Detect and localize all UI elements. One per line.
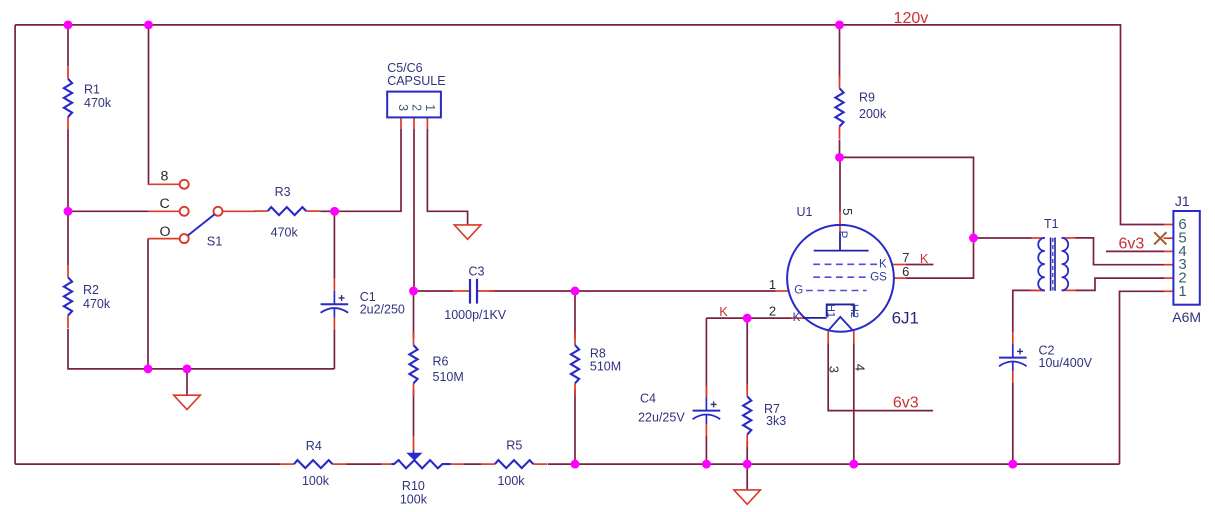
wire T1 secondary top to J1 pin 3 xyxy=(1076,238,1165,265)
switch S1 pole xyxy=(214,207,223,216)
wire tube pin 3 net 6v3 xyxy=(828,344,933,411)
connector J1 body xyxy=(1173,211,1199,305)
junction node E xyxy=(835,153,844,162)
svg-text:A6M: A6M xyxy=(1172,309,1201,325)
wire R7 ground stub xyxy=(746,464,748,490)
wire tube pin 6 to node F xyxy=(906,238,974,278)
junction node B xyxy=(409,287,418,296)
svg-text:1: 1 xyxy=(1178,283,1186,300)
op-amp U1 tube envelope xyxy=(787,225,894,332)
svg-text:3: 3 xyxy=(396,104,410,111)
pin 5 stub into tube plate xyxy=(839,212,841,234)
junction top rail switch xyxy=(144,20,153,29)
transformer T1 core line right xyxy=(1054,238,1056,291)
svg-text:G: G xyxy=(794,284,803,296)
svg-text:5: 5 xyxy=(840,208,855,215)
svg-text:K: K xyxy=(920,251,929,266)
wire top 120v rail xyxy=(15,24,1120,26)
tube grid dash line K xyxy=(813,263,877,265)
wire C1 bottom to ground bus xyxy=(333,330,335,369)
svg-text:6: 6 xyxy=(902,264,909,279)
svg-text:R10: R10 xyxy=(402,479,425,493)
svg-text:22u/25V: 22u/25V xyxy=(638,410,685,424)
svg-text:S1: S1 xyxy=(207,234,223,249)
svg-text:1000p/1KV: 1000p/1KV xyxy=(444,308,507,322)
svg-text:1: 1 xyxy=(423,104,437,111)
switch S1 blade xyxy=(188,214,215,235)
svg-text:510M: 510M xyxy=(590,359,621,373)
svg-text:1: 1 xyxy=(769,277,776,292)
wire node F to T1 primary top xyxy=(974,237,1032,239)
wire node B down to R6 xyxy=(413,291,415,339)
junction rail C2 xyxy=(1008,460,1017,469)
wire T1 primary bottom to C2 xyxy=(1013,290,1045,332)
resistor R2 xyxy=(67,265,69,278)
svg-text:U1: U1 xyxy=(797,205,813,219)
tube plate lead xyxy=(839,233,841,251)
svg-text:CAPSULE: CAPSULE xyxy=(387,74,445,88)
svg-text:K: K xyxy=(793,312,801,324)
svg-text:C3: C3 xyxy=(469,265,485,279)
wire 120v drop to J1 pin 6 xyxy=(1121,24,1165,225)
svg-text:100k: 100k xyxy=(400,492,428,506)
wire ground bus stub xyxy=(186,369,188,395)
wire R2 bottom to ground bus xyxy=(68,329,334,369)
wire R3 to node A xyxy=(320,210,334,212)
potentiometer R10 xyxy=(381,463,392,465)
resistor R6 xyxy=(413,333,415,346)
svg-text:C5/C6: C5/C6 xyxy=(387,61,422,75)
wire R9 bottom to node E xyxy=(839,140,841,158)
pin 6 stub from tube xyxy=(894,277,906,279)
pin stub J1 pin 3 xyxy=(1164,264,1173,266)
junction ground bus gnd xyxy=(183,364,192,373)
wire node C to switch contact C xyxy=(68,210,149,212)
pin stub switch contact C xyxy=(149,210,180,212)
junction top rail R1 xyxy=(64,20,73,29)
wire node D down to R8 xyxy=(574,291,576,339)
capacitor C1 xyxy=(333,279,335,291)
resistor R3 xyxy=(254,210,268,212)
pin stub J1 pin 5 xyxy=(1163,237,1173,239)
wire bottom rail R4 to R10 xyxy=(347,463,382,465)
svg-text:H2: H2 xyxy=(848,304,860,318)
ground capsule triangle xyxy=(454,225,481,239)
resistor R9 xyxy=(839,76,841,89)
svg-text:510M: 510M xyxy=(433,370,464,384)
switch S1 contact O xyxy=(180,234,189,243)
pin stub T1 primary top xyxy=(1032,237,1046,239)
wire node A up to capsule pin 3 xyxy=(335,129,401,212)
wire top rail to switch contact 8 xyxy=(148,25,150,184)
wire C4 bottom to rail xyxy=(705,436,707,464)
ground R7 xyxy=(734,490,761,504)
tube grid dash line G xyxy=(806,290,867,292)
svg-text:O: O xyxy=(159,224,170,240)
wire left rail xyxy=(14,25,16,464)
wire R8 bottom to rail xyxy=(574,390,576,465)
tube grid dash line GS xyxy=(813,276,870,278)
svg-text:R6: R6 xyxy=(433,355,449,369)
tube plate bar xyxy=(814,250,869,252)
tube cathode lead xyxy=(803,317,827,319)
wire C3 to node D and tube pin 1 xyxy=(490,290,776,292)
wire 6v3 to J1 pin 4 xyxy=(1106,250,1164,252)
wire node K row C4 to tube pin 2 xyxy=(706,317,791,319)
transformer T1 secondary winding xyxy=(1062,238,1069,290)
pin stub J1 pin 2 xyxy=(1164,277,1173,279)
svg-text:100k: 100k xyxy=(302,474,330,488)
wire bottom rail R10 to R5 xyxy=(464,463,481,465)
wire tube pin 7 net K xyxy=(906,264,933,266)
wire R7 bottom to rail xyxy=(746,441,748,464)
wire node E to node F xyxy=(840,157,974,238)
switch S1 contact 8 xyxy=(180,180,189,189)
wire C2 bottom to rail xyxy=(1012,383,1014,464)
pin wire switch pole to R3 xyxy=(223,210,256,212)
capacitor C4 xyxy=(705,385,707,397)
pin stub J1 pin 1 xyxy=(1164,290,1173,292)
junction rail pin4 xyxy=(849,460,858,469)
connector C5/C6 capsule body xyxy=(387,92,441,118)
junction node A xyxy=(330,207,339,216)
svg-text:R4: R4 xyxy=(306,439,322,453)
junction node C xyxy=(64,207,73,216)
pin stub switch contact 8 xyxy=(148,183,180,185)
svg-text:200k: 200k xyxy=(859,107,887,121)
wire R1 bottom to node C xyxy=(67,129,69,211)
capacitor C3 xyxy=(453,290,470,292)
pin stub T1 secondary bottom xyxy=(1062,289,1076,291)
resistor R8 xyxy=(574,333,576,346)
wire node B to C3 xyxy=(414,290,454,292)
pin stub capsule pin 1 xyxy=(426,117,428,128)
wire R7 top xyxy=(746,318,748,390)
svg-text:R5: R5 xyxy=(506,439,522,453)
transformer T1 core line left xyxy=(1050,238,1052,291)
pin stub T1 primary bottom xyxy=(1031,289,1045,291)
transformer T1 core dashed line xyxy=(1052,238,1054,291)
transformer T1 primary winding xyxy=(1038,238,1045,290)
svg-text:J1: J1 xyxy=(1175,193,1190,209)
svg-text:R3: R3 xyxy=(275,185,291,199)
junction rail R8 xyxy=(571,460,580,469)
wire tube pin 4 to rail xyxy=(853,344,855,465)
svg-text:3k3: 3k3 xyxy=(766,414,786,428)
tube cathode bracket xyxy=(827,304,854,316)
svg-text:GS: GS xyxy=(870,271,887,283)
no-connect X on J1 pin 5 xyxy=(1154,232,1166,244)
wire R2 top xyxy=(67,211,69,265)
pin stub J1 pin 6 xyxy=(1164,224,1173,226)
svg-text:C: C xyxy=(159,196,169,212)
capacitor C2 xyxy=(1012,332,1014,344)
svg-text:R9: R9 xyxy=(859,91,875,105)
tube heater caret xyxy=(828,317,853,331)
svg-text:7: 7 xyxy=(902,250,909,265)
junction node K xyxy=(743,314,752,323)
svg-text:2: 2 xyxy=(410,104,424,111)
pin 3 stub from tube heater xyxy=(827,330,829,343)
pin 1 stub into tube grid xyxy=(776,290,789,292)
svg-text:K: K xyxy=(719,304,728,319)
wire R1 top feed xyxy=(67,25,69,66)
resistor R4 xyxy=(280,463,294,465)
pin 2 stub into tube cathode xyxy=(792,317,805,319)
svg-text:8: 8 xyxy=(160,169,168,185)
svg-text:470k: 470k xyxy=(83,297,111,311)
wire T1 secondary bottom to J1 pin 2 xyxy=(1076,278,1165,290)
junction rail R7 xyxy=(743,460,752,469)
svg-text:R8: R8 xyxy=(590,346,606,360)
svg-text:T1: T1 xyxy=(1044,217,1059,231)
wire capsule pin 2 down to node B xyxy=(413,129,415,291)
svg-text:10u/400V: 10u/400V xyxy=(1039,356,1093,370)
svg-text:R2: R2 xyxy=(83,283,99,297)
wire bottom ground rail left xyxy=(15,463,280,465)
wire node A down to C1 xyxy=(333,211,335,278)
pin 4 stub from tube heater xyxy=(853,331,855,344)
svg-text:100k: 100k xyxy=(497,474,525,488)
svg-text:C4: C4 xyxy=(640,392,656,406)
resistor R1 xyxy=(67,66,69,79)
svg-text:6v3: 6v3 xyxy=(1119,236,1145,253)
ground left bus xyxy=(174,395,201,409)
junction node F xyxy=(969,234,978,243)
svg-text:470k: 470k xyxy=(271,225,299,239)
svg-text:3: 3 xyxy=(826,366,841,373)
svg-text:P: P xyxy=(836,231,848,239)
pin stub capsule pin 2 xyxy=(413,117,415,128)
wire J1 pin 1 riser from bottom rail xyxy=(1120,291,1165,464)
wire bottom ground rail right xyxy=(548,463,1120,465)
svg-text:H1: H1 xyxy=(825,304,837,318)
resistor R5 xyxy=(481,463,495,465)
svg-text:K: K xyxy=(879,258,887,270)
resistor R7 xyxy=(746,384,748,397)
junction top rail R9 xyxy=(835,20,844,29)
svg-text:4: 4 xyxy=(853,364,868,371)
pin stub capsule pin 3 xyxy=(400,117,402,128)
svg-text:R1: R1 xyxy=(84,83,100,97)
pin stub switch contact O xyxy=(148,238,180,240)
junction ground bus O xyxy=(144,364,153,373)
wire capsule pin 1 to ground xyxy=(427,129,467,225)
svg-text:2: 2 xyxy=(769,304,776,319)
svg-text:6J1: 6J1 xyxy=(892,308,919,327)
svg-text:470k: 470k xyxy=(84,96,112,110)
wire switch contact O to ground bus xyxy=(147,239,149,369)
svg-text:6v3: 6v3 xyxy=(893,395,919,412)
svg-text:2u2/250: 2u2/250 xyxy=(360,303,405,317)
svg-text:120v: 120v xyxy=(894,10,929,27)
wire node E down to tube plate pin 5 xyxy=(839,157,841,211)
junction node D xyxy=(571,287,580,296)
pin 7 stub from tube xyxy=(892,264,906,266)
switch S1 contact C xyxy=(180,207,189,216)
wire rail to R9 xyxy=(839,25,841,79)
wire R6 bottom to R10 wiper xyxy=(413,390,415,437)
pin stub J1 pin 4 xyxy=(1164,250,1173,252)
pin stub T1 secondary top xyxy=(1062,237,1076,239)
wire C4 top xyxy=(705,318,707,397)
junction rail C4 xyxy=(702,460,711,469)
ground capsule xyxy=(467,224,469,226)
